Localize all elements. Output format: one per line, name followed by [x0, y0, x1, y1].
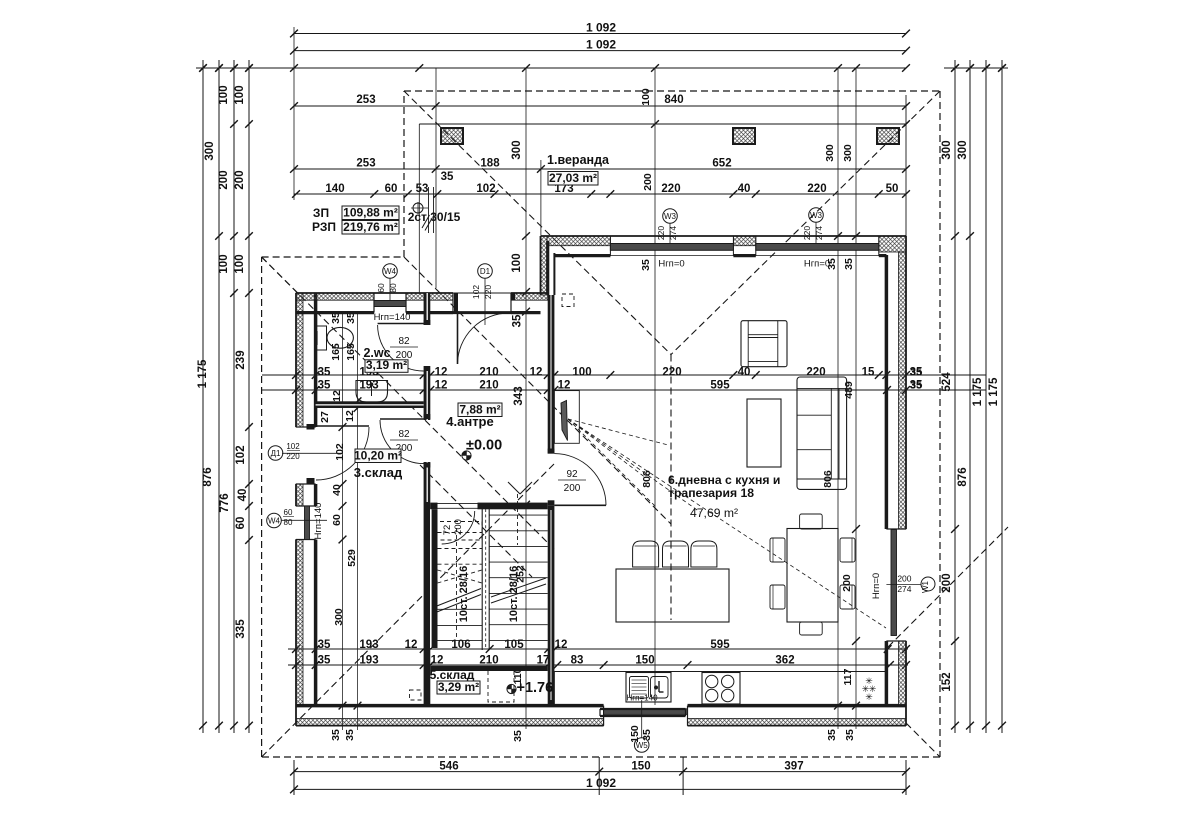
svg-text:1 175: 1 175 [197, 359, 209, 388]
svg-text:12: 12 [558, 380, 571, 392]
svg-text:27,03 m²: 27,03 m² [549, 171, 597, 185]
svg-text:140: 140 [325, 183, 344, 195]
svg-text:546: 546 [439, 761, 458, 773]
veranda post 2 [733, 128, 755, 144]
bubble D1 left [268, 442, 341, 461]
svg-text:92: 92 [566, 469, 578, 480]
dim line x526 porch [522, 68, 530, 729]
label 2st [408, 187, 461, 233]
interior wall stair-west [431, 509, 438, 648]
room height line x655 [654, 68, 656, 705]
dining table [787, 529, 838, 623]
svg-text:1 092: 1 092 [586, 38, 616, 52]
kitchen bar table [616, 569, 729, 622]
exterior wall top-left with window W4 and entry door opening [296, 293, 548, 313]
roof diagonal SE outside [888, 527, 1008, 647]
svg-text:300: 300 [842, 144, 854, 162]
svg-text:35: 35 [826, 729, 838, 741]
stair break lines [433, 578, 546, 614]
svg-text:50: 50 [886, 183, 899, 195]
svg-text:274: 274 [814, 226, 824, 240]
svg-text:100: 100 [234, 254, 246, 273]
dim label 806 left [641, 470, 653, 488]
bottom ext line x838 [834, 702, 842, 729]
svg-text:200: 200 [941, 573, 953, 592]
svg-text:100: 100 [218, 85, 230, 104]
kitchen boiler symbol [862, 676, 877, 702]
svg-text:220: 220 [802, 226, 812, 240]
dim row 1092 lower [290, 38, 910, 55]
svg-text:80: 80 [284, 518, 293, 527]
svg-text:1 175: 1 175 [988, 377, 1000, 406]
roof hip diagonal NE [671, 91, 940, 355]
svg-text:60: 60 [331, 514, 343, 526]
svg-text:3,19 m²: 3,19 m² [366, 358, 407, 372]
svg-text:80: 80 [388, 283, 398, 293]
svg-text:W3: W3 [664, 212, 677, 221]
veranda grid x856 [852, 68, 860, 706]
veranda slab edge y124 [419, 120, 910, 128]
svg-text:10,20 m²: 10,20 m² [354, 448, 402, 462]
svg-text:200: 200 [642, 173, 654, 191]
interior wall sklad5-north [430, 666, 547, 671]
dim row 140-60-53-102-173-220-40-220-50 [292, 183, 910, 198]
svg-text:12: 12 [405, 639, 418, 651]
stair left flight dashed guides [438, 528, 483, 640]
svg-text:40: 40 [331, 484, 343, 496]
extension line x435.6 [435, 68, 437, 288]
svg-text:239: 239 [235, 350, 247, 369]
tv sight dashed fan [568, 419, 886, 628]
dim row 649 [288, 639, 910, 653]
svg-text:397: 397 [784, 761, 803, 773]
svg-text:1 092: 1 092 [586, 776, 616, 790]
label hnn140 left [313, 503, 324, 540]
door wc leaf and swing [378, 324, 424, 372]
svg-text:652: 652 [712, 158, 731, 170]
svg-text:529: 529 [346, 549, 358, 567]
svg-text:102: 102 [235, 445, 247, 464]
svg-text:595: 595 [710, 639, 730, 651]
door sklad leaf and swing [380, 419, 424, 464]
svg-text:72: 72 [442, 525, 453, 536]
svg-text:12: 12 [530, 367, 543, 379]
extension line x294 top [293, 27, 295, 200]
porch edge line x419 [418, 124, 420, 293]
stair direction arrow [508, 482, 532, 545]
svg-text:35: 35 [641, 729, 653, 741]
svg-text:35: 35 [318, 655, 331, 667]
svg-text:17: 17 [537, 655, 550, 667]
kitchen cooktop [702, 673, 740, 705]
door sklad-left leaf and swing [316, 426, 369, 480]
svg-text:100: 100 [511, 253, 523, 272]
svg-text:100: 100 [572, 367, 591, 379]
level marker 0.00 [462, 438, 502, 461]
svg-text:±0.00: ±0.00 [466, 438, 502, 454]
svg-text:ЗП: ЗП [313, 206, 329, 220]
svg-text:150: 150 [631, 761, 650, 773]
svg-text:150: 150 [635, 655, 654, 667]
svg-text:82: 82 [398, 336, 410, 347]
label veranda [547, 153, 610, 185]
svg-text:300: 300 [957, 140, 969, 159]
svg-text:489: 489 [843, 381, 855, 399]
svg-text:220: 220 [656, 226, 666, 240]
svg-text:165: 165 [345, 343, 357, 361]
dim label 35 porch [512, 314, 524, 327]
roof diagonal hall a [404, 257, 671, 524]
left dimension chain labels [197, 85, 249, 638]
wash basin [356, 381, 388, 403]
top reference line y68 [196, 64, 1008, 72]
armchair [741, 321, 787, 367]
exterior wall top living room with windows W3 [541, 236, 907, 256]
label zp [313, 205, 399, 220]
bottom ext line x856 [852, 702, 860, 729]
svg-text:82: 82 [398, 429, 410, 440]
svg-text:27: 27 [319, 411, 331, 423]
svg-text:35: 35 [330, 729, 342, 741]
dim 35 pair right wall [910, 367, 922, 392]
svg-text:60: 60 [284, 508, 293, 517]
veranda right edge x906 [905, 95, 907, 236]
dim row 1092 bottom [290, 776, 910, 793]
svg-text:220: 220 [286, 452, 300, 461]
svg-text:300: 300 [941, 140, 953, 159]
right dimension chain labels [941, 140, 1000, 691]
svg-text:200: 200 [564, 483, 581, 494]
label hnn0 w3a [658, 259, 684, 270]
svg-text:102: 102 [476, 183, 495, 195]
svg-text:300: 300 [511, 140, 523, 159]
label hnn0 w1 [871, 573, 882, 599]
svg-text:220: 220 [661, 183, 680, 195]
bottom dim extension lines [294, 757, 906, 795]
sklad5 door dashed [488, 669, 514, 702]
svg-text:220: 220 [483, 285, 493, 299]
dim label 300 porch [511, 140, 523, 159]
svg-text:806: 806 [641, 470, 653, 488]
kitchen bar stools [633, 541, 717, 567]
exterior wall left with door and window openings [296, 293, 316, 726]
svg-text:Hгп=140: Hгп=140 [626, 694, 658, 703]
dim label 806 right [822, 470, 834, 488]
rotated small dims [319, 144, 856, 743]
svg-text:200: 200 [218, 170, 230, 189]
svg-text:776: 776 [219, 493, 231, 512]
svg-text:220: 220 [662, 367, 681, 379]
label sklad3 [354, 448, 403, 480]
svg-text:60: 60 [385, 183, 398, 195]
label hnn140 kitchen [626, 694, 658, 703]
svg-text:83: 83 [571, 655, 584, 667]
svg-text:Hгп=0: Hгп=0 [804, 259, 830, 270]
stair labels [458, 566, 520, 622]
dim label 252 [515, 565, 527, 583]
bubble W3 b [802, 208, 824, 243]
dim row 665 [288, 655, 910, 669]
label hnn0 w3b [804, 259, 830, 270]
niche dashed rect sklad3 [410, 690, 422, 700]
svg-text:100: 100 [218, 254, 230, 273]
svg-text:2ст 30/15: 2ст 30/15 [408, 210, 461, 224]
label hnn140 top [374, 312, 411, 323]
svg-text:12: 12 [435, 367, 448, 379]
tv cabinet and tv [554, 391, 579, 444]
svg-text:12: 12 [555, 639, 568, 651]
svg-text:35: 35 [512, 314, 524, 327]
svg-text:W1: W1 [921, 580, 930, 593]
svg-text:W5: W5 [636, 741, 649, 750]
svg-text:3,29 m²: 3,29 m² [438, 680, 479, 694]
dining chairs [770, 514, 855, 635]
svg-text:200: 200 [897, 574, 911, 584]
svg-text:876: 876 [202, 467, 214, 486]
roof diagonal hall b [262, 257, 554, 549]
svg-text:1 092: 1 092 [586, 21, 616, 35]
exterior wall right with window W1 [886, 236, 906, 726]
svg-text:40: 40 [237, 489, 249, 502]
interior wall stair-north [430, 503, 547, 510]
interior wall living-west [548, 295, 555, 706]
stair middle stringer [482, 505, 489, 650]
svg-text:35: 35 [441, 171, 454, 183]
roof hip diagonal NW [404, 91, 671, 355]
dim row 253-188-652 [290, 158, 910, 191]
roof corner diagonal SE short [906, 723, 940, 757]
kitchen sink unit [626, 673, 671, 703]
level marker 1.76 [507, 680, 553, 696]
veranda post 3 [877, 128, 899, 144]
dim label 117 [842, 668, 854, 685]
svg-text:102: 102 [286, 442, 300, 451]
svg-text:трапезария 18: трапезария 18 [668, 486, 754, 500]
svg-text:193: 193 [359, 380, 378, 392]
door D1 entry leaf and swing [458, 313, 510, 364]
svg-text:35: 35 [318, 380, 331, 392]
svg-text:40: 40 [738, 367, 751, 379]
svg-text:274: 274 [668, 226, 678, 240]
exterior wall bottom with kitchen window [296, 706, 906, 726]
interior wall hall-west [424, 293, 431, 706]
svg-text:1.веранда: 1.веранда [547, 153, 610, 167]
svg-text:362: 362 [775, 655, 794, 667]
svg-text:193: 193 [359, 655, 378, 667]
svg-text:35: 35 [910, 367, 922, 379]
dim label 100 porch [511, 253, 523, 272]
svg-text:10ст. 28/16: 10ст. 28/16 [508, 566, 520, 622]
label living [668, 473, 780, 520]
svg-text:4.антре: 4.антре [446, 414, 493, 429]
door jamb blocks [307, 294, 555, 506]
svg-text:Hгп=140: Hгп=140 [374, 312, 411, 323]
svg-text:РЗП: РЗП [312, 220, 336, 234]
svg-text:6.дневна с кухня и: 6.дневна с кухня и [668, 473, 780, 487]
coffee table [747, 399, 781, 467]
veranda grid x838 [834, 68, 842, 706]
svg-text:12: 12 [435, 380, 448, 392]
svg-text:12: 12 [431, 655, 444, 667]
dim row B mid [262, 380, 986, 394]
svg-text:40: 40 [738, 183, 751, 195]
svg-text:Д1: Д1 [271, 449, 281, 458]
svg-text:300: 300 [824, 144, 836, 162]
left dimension chain lines [199, 60, 253, 733]
svg-text:35: 35 [910, 380, 922, 392]
interior dim line x341 [339, 313, 347, 730]
door hall-living leaf and swing [554, 454, 606, 506]
svg-text:335: 335 [235, 619, 247, 639]
bubble W5 bottom [634, 700, 649, 752]
svg-text:300: 300 [333, 608, 345, 626]
svg-text:12: 12 [344, 410, 356, 422]
svg-text:12: 12 [331, 390, 343, 402]
label rzp [312, 220, 399, 234]
label door 92-200 living [558, 469, 586, 494]
svg-text:35: 35 [512, 730, 524, 742]
svg-text:10ст. 28/16: 10ст. 28/16 [458, 566, 470, 622]
veranda post 1 [441, 128, 463, 144]
stair left flight treads [438, 533, 483, 641]
svg-text:343: 343 [513, 386, 525, 405]
label door 82-200 wc [390, 336, 418, 361]
svg-text:35: 35 [344, 729, 356, 741]
svg-text:15: 15 [862, 367, 875, 379]
roof diagonal stairs [262, 464, 554, 757]
label sklad5 [430, 668, 480, 694]
exterior wall living west upper [541, 236, 555, 295]
svg-text:219,76 m²: 219,76 m² [343, 220, 398, 234]
right dimension chain lines [951, 60, 1006, 733]
svg-text:117: 117 [842, 668, 854, 685]
stair landing dashed box [433, 522, 482, 541]
svg-text:200: 200 [841, 574, 853, 592]
label door 72-200 stair [442, 519, 464, 535]
interior wall wc-south [316, 401, 424, 408]
svg-text:35: 35 [318, 367, 331, 379]
svg-text:595: 595 [710, 380, 730, 392]
svg-text:102: 102 [334, 443, 346, 461]
svg-text:876: 876 [957, 467, 969, 486]
label door 82-200 sklad [390, 429, 418, 454]
dim row 1092 upper [290, 21, 910, 38]
roof overhang dashed outline [262, 91, 940, 757]
svg-text:102: 102 [471, 285, 481, 299]
svg-text:D1: D1 [480, 267, 491, 276]
dim row A mid [262, 367, 986, 379]
bubble W3 a [656, 209, 678, 243]
svg-text:188: 188 [480, 158, 500, 170]
svg-text:Hгп=140: Hгп=140 [313, 503, 324, 540]
svg-text:3.склад: 3.склад [354, 465, 403, 480]
svg-text:Hгп=0: Hгп=0 [658, 259, 684, 270]
svg-text:35: 35 [640, 259, 652, 271]
roof diagonal hall c [420, 465, 532, 577]
dim label 343 hall [513, 386, 525, 405]
svg-text:840: 840 [664, 94, 683, 106]
roof ridge vertical [670, 355, 672, 621]
svg-text:253: 253 [356, 158, 375, 170]
door stair 72 swing [442, 511, 475, 544]
bubble W4 top [376, 264, 398, 300]
sofa [797, 377, 847, 489]
svg-text:193: 193 [359, 639, 378, 651]
svg-text:100: 100 [234, 85, 246, 104]
svg-text:35: 35 [318, 639, 331, 651]
svg-text:210: 210 [479, 655, 498, 667]
svg-text:210: 210 [479, 380, 498, 392]
svg-text:W4: W4 [384, 267, 397, 276]
svg-text:274: 274 [897, 584, 911, 594]
dim row 546-150-397 [290, 761, 910, 776]
svg-text:47,69 m²: 47,69 m² [690, 506, 738, 520]
svg-text:✳: ✳ [865, 692, 873, 702]
svg-text:35: 35 [843, 258, 855, 270]
label wc [363, 346, 408, 372]
dim row 253-840 [290, 88, 910, 110]
svg-text:60: 60 [376, 283, 386, 293]
svg-text:W3: W3 [810, 211, 823, 220]
kitchen counter [554, 672, 886, 706]
bubble W4 left [267, 508, 327, 528]
niche dashed rect [562, 294, 574, 307]
svg-text:W4: W4 [268, 517, 281, 526]
svg-text:200: 200 [234, 170, 246, 189]
toilet [317, 326, 354, 350]
extension line x540.9 [540, 160, 542, 236]
label antre [446, 402, 502, 429]
roof corner diagonal NW short [262, 257, 298, 293]
svg-text:1 175: 1 175 [972, 377, 984, 406]
svg-text:53: 53 [416, 183, 429, 195]
svg-text:210: 210 [479, 367, 498, 379]
svg-text:220: 220 [807, 183, 826, 195]
bubble D1 top [471, 264, 493, 325]
svg-text:253: 253 [356, 94, 375, 106]
svg-text:60: 60 [235, 517, 247, 530]
svg-text:35: 35 [844, 729, 856, 741]
stair right flight treads [489, 515, 548, 640]
bubble W1 right [886, 574, 935, 595]
dim label 110 [512, 667, 524, 684]
svg-text:Hгп=0: Hгп=0 [871, 573, 882, 599]
svg-text:300: 300 [204, 141, 216, 160]
svg-text:+1.76: +1.76 [517, 680, 554, 696]
svg-text:152: 152 [941, 672, 953, 691]
interior dim line x353 [354, 313, 362, 730]
dim label 489 [843, 381, 855, 399]
window W1 dim line [841, 525, 860, 645]
svg-text:109,88 m²: 109,88 m² [343, 205, 398, 219]
